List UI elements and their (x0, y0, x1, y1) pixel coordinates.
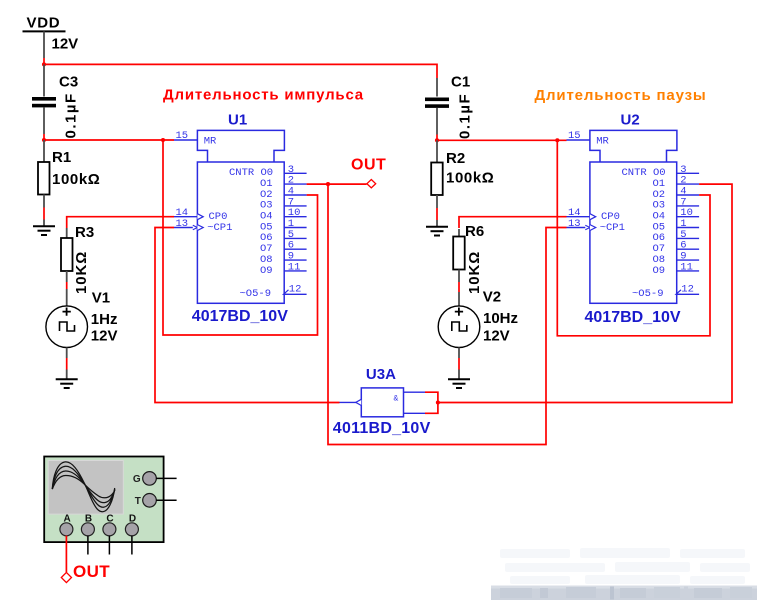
terminal D of scope (125, 514, 138, 555)
svg-text:V1: V1 (92, 290, 110, 307)
screenshot remnant band bottom right (491, 586, 757, 600)
svg-text:OUT: OUT (351, 156, 386, 173)
wire feedback U1.O2 to MR net (163, 140, 318, 335)
pin lead O6 pin5 (284, 237, 306, 239)
chip U1 body (197, 162, 284, 303)
wire VDD rail (44, 58, 437, 78)
oscilloscope XSC1 (44, 457, 163, 543)
pin lead O4 pin10 (284, 216, 306, 218)
pin 14 lead CP0 (174, 216, 197, 218)
svg-text:VDD: VDD (27, 15, 61, 32)
ground below V2 (448, 379, 470, 388)
svg-text:~CP1: ~CP1 (207, 222, 232, 234)
terminal G of scope (133, 472, 177, 486)
chip U1 tab outline (197, 130, 284, 162)
wire scope A to OUT connector (65, 536, 67, 573)
svg-text:U2: U2 (621, 111, 640, 128)
counter U1 4017BD_10V (174, 130, 307, 303)
svg-text:100kΩ: 100kΩ (446, 170, 494, 187)
connector OUT diamond (bottom) (61, 572, 71, 582)
svg-text:R3: R3 (75, 224, 94, 241)
wire C3 to node (43, 134, 45, 140)
resistor R3 (61, 228, 73, 306)
gate U3A 4011 NAND (mirrored) (340, 388, 426, 417)
svg-text:O9: O9 (260, 265, 273, 277)
svg-text:Длительность импульса: Длительность импульса (163, 87, 364, 104)
svg-text:MR: MR (204, 135, 217, 147)
svg-text:10KΩ: 10KΩ (466, 251, 483, 294)
svg-text:0.1µF: 0.1µF (63, 92, 80, 138)
pin lead O9 pin11 (284, 270, 306, 272)
svg-text:&: & (394, 395, 399, 404)
svg-text:4011BD_10V: 4011BD_10V (333, 420, 431, 437)
resistor R2 (431, 140, 443, 226)
svg-text:~O5-9: ~O5-9 (240, 288, 272, 300)
clock wedge CP0 (197, 214, 203, 220)
capacitor C1 (425, 78, 449, 140)
svg-text:OUT: OUT (73, 562, 110, 581)
svg-text:V2: V2 (483, 289, 501, 306)
wire R6 to U2 CP0 (459, 217, 567, 228)
inversion wedge CP1 (193, 225, 198, 230)
pin 13 lead CP1 (174, 227, 197, 229)
svg-text:U1: U1 (228, 111, 247, 128)
svg-text:R6: R6 (465, 223, 484, 240)
svg-text:12V: 12V (52, 36, 79, 53)
pin lead O8 pin9 (284, 259, 306, 261)
node junction OUT (326, 182, 330, 186)
node junction on MR wire (161, 138, 165, 142)
wire U2.O1 to U3A inputs (438, 184, 732, 402)
wire feedback U2.O2 to MR net (557, 140, 710, 335)
pin 15 MR lead (174, 139, 197, 141)
svg-text:C3: C3 (59, 74, 78, 91)
node junction U3A input bracket (436, 400, 440, 404)
svg-text:100kΩ: 100kΩ (52, 171, 100, 188)
ground below R2 (426, 227, 448, 236)
node junction C1/R2/U2 MR (435, 138, 439, 142)
node junction on U2 MR wire (555, 138, 559, 142)
wedge pin12 (284, 290, 289, 295)
ground below V1 (56, 379, 78, 388)
svg-text:11: 11 (288, 261, 301, 273)
svg-text:12V: 12V (483, 328, 510, 345)
capacitor C3 (32, 64, 56, 134)
faint watermark smudge above band (500, 548, 750, 584)
pin lead O7 pin6 (284, 248, 306, 250)
connector OUT diamond (367, 180, 376, 188)
wire OUT net to U2 ~CP1 (328, 184, 567, 444)
svg-text:C1: C1 (451, 74, 470, 91)
wire U3A input bracket (425, 392, 438, 413)
ground below R1 (33, 226, 55, 235)
svg-text:G: G (133, 474, 141, 485)
pin lead ~O5-9 pin12 (284, 293, 306, 295)
svg-text:0.1µF: 0.1µF (457, 93, 474, 139)
wire U1.O1 to OUT node (307, 183, 367, 185)
terminal T of scope (135, 494, 177, 508)
svg-text:10Hz: 10Hz (483, 310, 518, 327)
source V1 square wave (46, 306, 88, 379)
pin lead O5 pin1 (284, 227, 306, 229)
svg-text:4017BD_10V: 4017BD_10V (585, 309, 681, 326)
source V2 square wave (438, 306, 480, 379)
pin lead O2 pin4 (284, 194, 306, 196)
svg-text:4017BD_10V: 4017BD_10V (192, 308, 288, 325)
node junction VDD/C3 (42, 62, 46, 66)
svg-text:10KΩ: 10KΩ (73, 251, 90, 294)
svg-text:Длительность паузы: Длительность паузы (535, 87, 707, 104)
wire node to U1 pin15 (44, 139, 174, 141)
pin lead O3 pin7 (284, 205, 306, 207)
wire R3 to U1 CP0 (67, 217, 174, 228)
clock wedge CP1 (197, 225, 203, 231)
svg-text:1Hz: 1Hz (91, 311, 118, 328)
svg-text:15: 15 (176, 130, 189, 142)
pin lead O0 pin3 (284, 172, 306, 174)
node junction C3/R1/MR net (42, 138, 46, 142)
svg-text:U3A: U3A (366, 366, 396, 383)
wire node to U2 pin15 (437, 139, 567, 141)
terminal A of scope (60, 514, 73, 536)
terminal C of scope (103, 514, 116, 555)
counter U2 4017BD_10V (567, 130, 700, 303)
wire U3A output to U1 ~CP1 (155, 228, 340, 403)
power symbol VDD (23, 15, 66, 59)
svg-text:T: T (135, 496, 141, 507)
svg-text:13: 13 (176, 218, 189, 230)
svg-text:R2: R2 (446, 150, 465, 167)
svg-text:12V: 12V (91, 328, 118, 345)
svg-text:12: 12 (289, 283, 302, 295)
terminal B of scope (81, 514, 94, 555)
resistor R6 (453, 229, 465, 306)
pin lead O1 pin2 (284, 183, 306, 185)
svg-text:R1: R1 (52, 149, 71, 166)
resistor R1 (38, 140, 50, 226)
